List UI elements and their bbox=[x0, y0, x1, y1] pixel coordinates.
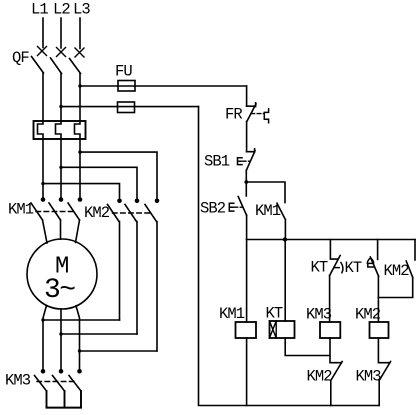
svg-text:KM3: KM3 bbox=[306, 306, 332, 324]
svg-text:KT: KT bbox=[266, 305, 283, 323]
svg-text:QF: QF bbox=[12, 49, 29, 67]
svg-text:KM3: KM3 bbox=[356, 368, 382, 386]
svg-text:KM1: KM1 bbox=[219, 305, 245, 323]
svg-text:KT: KT bbox=[345, 259, 362, 277]
svg-text:SB2: SB2 bbox=[200, 200, 226, 218]
svg-text:KM2: KM2 bbox=[384, 262, 410, 280]
svg-text:L1: L1 bbox=[31, 1, 48, 19]
svg-text:3~: 3~ bbox=[44, 275, 75, 306]
svg-text:L2: L2 bbox=[53, 1, 70, 19]
svg-text:KT: KT bbox=[311, 259, 328, 277]
svg-text:KM2: KM2 bbox=[84, 204, 110, 222]
svg-text:KM1: KM1 bbox=[255, 202, 281, 220]
svg-text:KM3: KM3 bbox=[5, 372, 31, 390]
svg-text:SB1: SB1 bbox=[204, 153, 230, 171]
svg-text:FR: FR bbox=[225, 106, 242, 124]
svg-text:L3: L3 bbox=[73, 1, 90, 19]
svg-text:KM1: KM1 bbox=[8, 201, 34, 219]
svg-text:KM2: KM2 bbox=[307, 368, 333, 386]
svg-text:FU: FU bbox=[115, 63, 132, 81]
svg-text:KM2: KM2 bbox=[355, 306, 381, 324]
